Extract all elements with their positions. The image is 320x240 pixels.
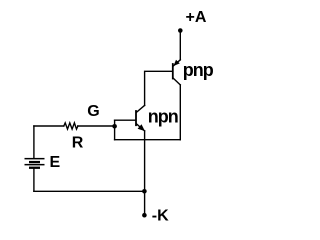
resistor R: [64, 123, 78, 129]
wire battery to bottom: [33, 169, 35, 191]
transistor U2 npn: [136, 105, 145, 131]
svg-text:pnp: pnp: [183, 60, 214, 80]
svg-text:npn: npn: [148, 107, 178, 127]
node -K terminal: [142, 213, 147, 218]
wire bottom feedback horizontal: [115, 139, 181, 141]
svg-text:-K: -K: [152, 208, 169, 225]
svg-text:R: R: [72, 135, 84, 152]
wire npn base: [115, 119, 136, 121]
wire gate horizontal: [34, 125, 64, 127]
battery E: [25, 158, 45, 169]
wire resistor to gate node: [78, 125, 115, 127]
wire left vertical: [33, 126, 35, 158]
svg-text:G: G: [87, 103, 99, 120]
wire npn emitter down to -K: [144, 131, 146, 215]
wire pnp collector down: [179, 85, 181, 140]
svg-text:E: E: [50, 154, 61, 171]
node bottom junction: [142, 189, 147, 194]
wire pnp base to npn collector: [145, 71, 173, 105]
transistor U1 pnp: [173, 60, 181, 85]
node +A terminal: [178, 28, 183, 33]
wire +A to pnp emitter: [179, 31, 181, 60]
node G junction: [112, 124, 117, 129]
wire bottom horizontal: [34, 190, 144, 192]
svg-text:+A: +A: [186, 9, 207, 26]
wire gate riser: [114, 120, 116, 140]
